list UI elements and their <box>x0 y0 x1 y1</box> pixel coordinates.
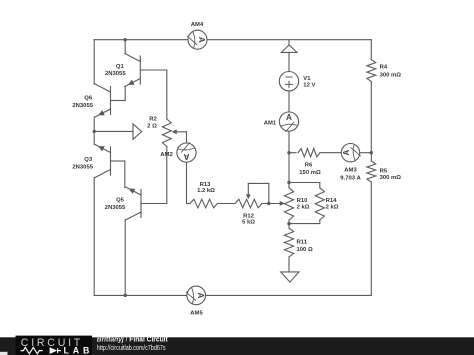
svg-text:150 mΩ: 150 mΩ <box>299 170 321 176</box>
svg-text:R2: R2 <box>149 116 157 122</box>
svg-text:AM3: AM3 <box>344 168 357 174</box>
svg-text:Brittanyj / Final Circuit: Brittanyj / Final Circuit <box>97 336 169 343</box>
svg-text:2 Ω: 2 Ω <box>147 124 157 130</box>
svg-text:Q5: Q5 <box>116 198 125 204</box>
svg-text:1.2 kΩ: 1.2 kΩ <box>197 188 215 194</box>
svg-text:R14: R14 <box>326 198 338 204</box>
svg-text:2N3055: 2N3055 <box>72 164 93 170</box>
svg-text:300 mΩ: 300 mΩ <box>380 72 402 78</box>
svg-text:2 kΩ: 2 kΩ <box>297 205 310 211</box>
svg-text:AM1: AM1 <box>264 120 277 126</box>
svg-text:R5: R5 <box>380 169 388 175</box>
svg-text:R13: R13 <box>200 182 212 188</box>
svg-text:2N3055: 2N3055 <box>105 71 126 77</box>
svg-text:http://circuitlab.com/c7bd67s: http://circuitlab.com/c7bd67s <box>97 345 166 352</box>
svg-text:Q3: Q3 <box>84 157 93 163</box>
svg-text:R10: R10 <box>297 198 309 204</box>
svg-text:300 mΩ: 300 mΩ <box>380 175 402 181</box>
svg-text:2N3055: 2N3055 <box>105 205 126 211</box>
svg-text:V1: V1 <box>303 76 311 82</box>
svg-text:A: A <box>342 150 351 156</box>
svg-text:9.703 A: 9.703 A <box>340 175 361 181</box>
svg-text:LAB: LAB <box>64 345 94 355</box>
svg-text:2 kΩ: 2 kΩ <box>326 205 339 211</box>
svg-text:Q1: Q1 <box>116 64 125 70</box>
svg-text:A: A <box>197 37 206 43</box>
svg-text:12 V: 12 V <box>303 82 315 88</box>
svg-text:2N3055: 2N3055 <box>72 103 93 109</box>
svg-text:R11: R11 <box>297 239 308 245</box>
svg-text:A: A <box>183 152 189 161</box>
svg-text:100 Ω: 100 Ω <box>297 247 313 253</box>
svg-text:A: A <box>286 113 292 122</box>
svg-text:A: A <box>196 292 205 298</box>
svg-text:5 kΩ: 5 kΩ <box>242 219 255 225</box>
svg-text:Q6: Q6 <box>84 96 93 102</box>
svg-text:R6: R6 <box>305 163 313 169</box>
svg-text:AM5: AM5 <box>190 310 203 316</box>
svg-text:R4: R4 <box>380 65 388 71</box>
svg-text:AM2: AM2 <box>160 152 173 158</box>
svg-text:AM4: AM4 <box>191 22 204 28</box>
